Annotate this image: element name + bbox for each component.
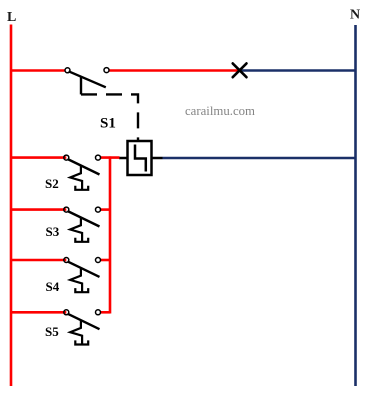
wire row2 navy relay to N <box>163 157 356 159</box>
switch S2 pushbutton <box>64 155 101 190</box>
wire row4 red <box>11 259 66 262</box>
switch S1 contacts and lever <box>65 68 109 95</box>
wire row5 red <box>11 311 66 314</box>
svg-text:S4: S4 <box>46 279 60 294</box>
lamp X1 (cross symbol) <box>233 63 247 77</box>
switch S3 pushbutton <box>64 207 101 242</box>
svg-text:S2: S2 <box>45 176 59 191</box>
wire row2 red from L to S2 and to relay <box>11 156 66 159</box>
svg-text:carailmu.com: carailmu.com <box>185 104 255 118</box>
wire top row red from L to lamp <box>11 69 65 72</box>
switch S5 pushbutton <box>64 310 101 345</box>
svg-text:S3: S3 <box>46 224 60 239</box>
wire row3 red <box>11 208 66 211</box>
switch S4 pushbutton <box>64 258 101 293</box>
wire red junction bus joining S2..S5 outputs <box>109 156 112 313</box>
wire L bus (red vertical phase line) <box>10 25 13 387</box>
svg-text:S5: S5 <box>45 324 59 339</box>
wire top row navy from lamp to N <box>240 69 356 71</box>
wire N bus (navy vertical neutral line) <box>354 25 357 386</box>
svg-text:S1: S1 <box>100 116 116 132</box>
wire dashed mechanical linkage S1 to relay <box>81 94 138 140</box>
svg-text:N: N <box>350 8 360 23</box>
relay K1 impulse relay box <box>119 141 163 175</box>
svg-text:L: L <box>7 10 16 25</box>
